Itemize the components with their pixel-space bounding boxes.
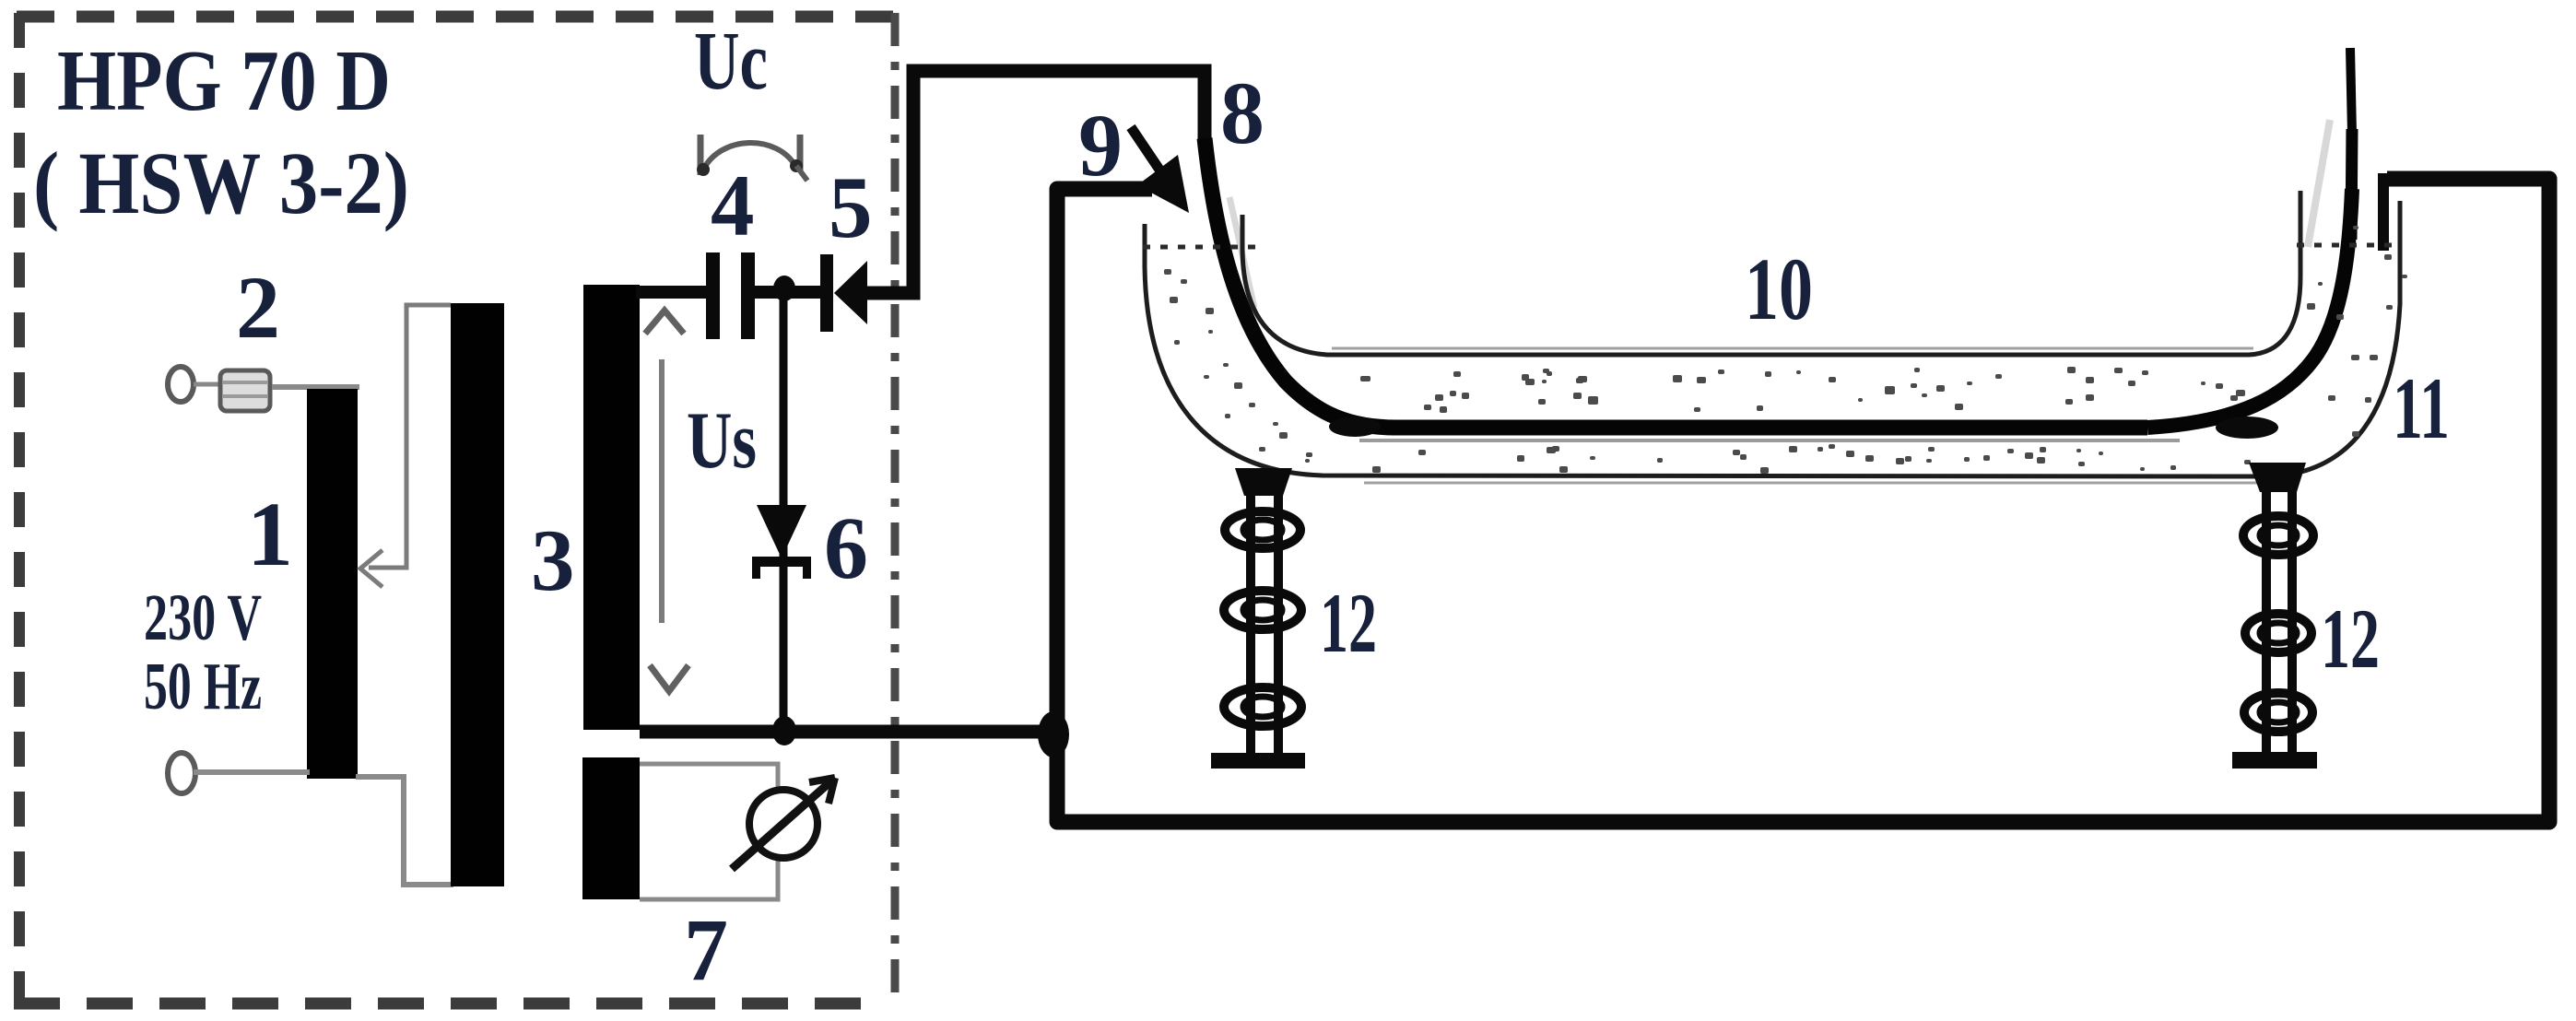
dashed enclosure left border bbox=[14, 13, 25, 1004]
variac wiper arrow bbox=[360, 305, 451, 587]
label 3 bbox=[531, 511, 575, 609]
label 1 bbox=[247, 483, 293, 585]
label 11 bbox=[2393, 359, 2450, 457]
svg-text:230 V: 230 V bbox=[144, 581, 262, 654]
svg-text:4: 4 bbox=[711, 157, 755, 254]
label Uc bbox=[694, 16, 768, 107]
sand level dotted line left bbox=[1143, 245, 1257, 250]
cable shadow line bbox=[1359, 439, 2180, 442]
terminal (input top) bbox=[168, 367, 194, 402]
junction dot at secondary bottom bbox=[772, 716, 796, 745]
capacitor 4 bbox=[706, 252, 755, 339]
label 12 right bbox=[2321, 592, 2380, 686]
title HPG 70 D bbox=[57, 33, 391, 129]
Us measuring arrow bbox=[645, 311, 688, 691]
svg-text:Us: Us bbox=[687, 396, 757, 486]
insulator 12 left bbox=[1211, 468, 1305, 769]
label 5 bbox=[829, 158, 873, 256]
fuse 2 bbox=[220, 370, 270, 411]
wire diode 6 branch vertical bbox=[780, 293, 788, 728]
svg-text:12: 12 bbox=[2321, 592, 2380, 686]
value label 230 V bbox=[144, 581, 262, 654]
node (junction of return wires) bbox=[1038, 711, 1069, 757]
dashed enclosure right dash-dot border bbox=[891, 13, 900, 1004]
terminal (input bottom) bbox=[168, 753, 195, 793]
return wire loop: sheath arrow, left vertical, bottom, right vertical, top, stub bbox=[1057, 173, 2549, 822]
wire secondary bottom rail bbox=[640, 725, 1047, 739]
Uc adjustment curved arrow bbox=[697, 135, 807, 181]
svg-text:1: 1 bbox=[247, 483, 293, 585]
transformer 3 primary winding bbox=[451, 303, 504, 886]
label 12 left bbox=[1320, 576, 1377, 670]
autotransformer winding 1 bbox=[307, 389, 358, 779]
wire capacitor to diode 5 bbox=[755, 286, 822, 299]
svg-text:10: 10 bbox=[1745, 240, 1813, 338]
svg-text:7: 7 bbox=[684, 900, 728, 999]
svg-text:( HSW 3-2): ( HSW 3-2) bbox=[33, 134, 409, 232]
cable 8 flat run bbox=[1329, 417, 2147, 437]
arrowhead 9 (sheath connection) bbox=[1131, 127, 1189, 213]
diode 5 bbox=[820, 254, 867, 332]
label Us bbox=[687, 396, 757, 486]
svg-text:6: 6 bbox=[824, 499, 868, 597]
wire fuse to winding 1 bbox=[272, 384, 359, 390]
svg-text:50 Hz: 50 Hz bbox=[144, 649, 262, 723]
insulator 12 right bbox=[2216, 417, 2317, 769]
sand stipple dots bbox=[1164, 226, 2407, 474]
label 4 bbox=[711, 157, 755, 254]
trough outer wall bbox=[1145, 201, 2400, 476]
wire winding1 bottom to primary bottom bbox=[356, 777, 453, 885]
sand level dotted line right bbox=[2297, 243, 2394, 248]
meter 7 (adjustable indicator) bbox=[732, 778, 835, 869]
svg-text:3: 3 bbox=[531, 511, 575, 609]
svg-text:12: 12 bbox=[1320, 576, 1377, 670]
label 6 bbox=[824, 499, 868, 597]
wire terminal to fuse bbox=[194, 382, 224, 387]
svg-text:11: 11 bbox=[2393, 359, 2450, 457]
diode 6 bbox=[752, 505, 811, 579]
inner wall top gray edge bbox=[1332, 348, 2272, 483]
svg-text:Uc: Uc bbox=[694, 16, 768, 107]
cable 8 right ascent (end 11) bbox=[2147, 48, 2352, 428]
wire bottom terminal to winding 1 bbox=[194, 769, 310, 775]
label 2 bbox=[236, 258, 280, 357]
svg-text:5: 5 bbox=[829, 158, 873, 256]
label 10 bbox=[1745, 240, 1813, 338]
label 9 bbox=[1078, 96, 1123, 194]
svg-text:2: 2 bbox=[236, 258, 280, 357]
title ( HSW 3-2) bbox=[33, 134, 409, 232]
svg-text:9: 9 bbox=[1078, 96, 1123, 194]
dashed enclosure top border bbox=[17, 11, 900, 23]
value label 50 Hz bbox=[144, 649, 262, 723]
label 7 bbox=[684, 900, 728, 999]
junction dot at diode 6 branch bbox=[773, 276, 795, 301]
label 8 bbox=[1220, 64, 1264, 162]
trough inner wall bbox=[1242, 191, 2300, 355]
winding 7 connection loop bbox=[640, 764, 778, 899]
winding 7 (measuring winding) bbox=[582, 757, 640, 899]
dashed enclosure bottom border bbox=[14, 998, 876, 1010]
cable 8 left descent bbox=[1205, 138, 1396, 428]
wire secondary top to capacitor bbox=[636, 286, 708, 299]
wire diode 5 to top corner and across top bbox=[865, 71, 1205, 293]
transformer 3 secondary winding bbox=[583, 285, 640, 730]
svg-text:8: 8 bbox=[1220, 64, 1264, 162]
svg-text:HPG 70 D: HPG 70 D bbox=[57, 33, 391, 129]
